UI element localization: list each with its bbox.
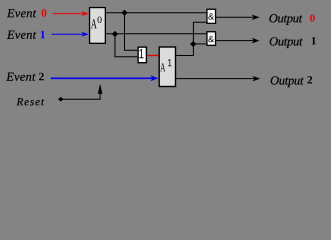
block A1 superscript 1 [168, 59, 171, 66]
gate AND &1 [207, 9, 216, 23]
block A1 letter A [160, 63, 165, 71]
wire Event 2 blue arrow into A1 [51, 75, 159, 81]
label digit 1 blue (Event 1) [41, 31, 45, 38]
wire A1 output arrow to Output 2 [176, 76, 260, 82]
label digit 2 (Output 2) [307, 76, 312, 83]
block A1 [159, 47, 175, 87]
wire J1 down to 1-box top input [125, 13, 138, 51]
gate 1-box [138, 47, 146, 63]
label digit 0 red (Event 0) [42, 9, 47, 17]
node J1 junction diamond [121, 10, 127, 16]
block A0 [90, 8, 106, 44]
block A0 letter A [91, 19, 97, 28]
label Output (row 2) [271, 76, 304, 87]
label Event (row 2) [6, 73, 35, 81]
label digit 1 (Output 1) [312, 37, 316, 44]
gate AND-1 glyph & [208, 13, 214, 19]
wire J2 down to 1-box bottom input [115, 34, 137, 57]
gate AND &2 [207, 32, 216, 46]
label digit 2 (Event 2) [39, 73, 44, 80]
node J2 junction diamond [112, 31, 118, 37]
label Output (row 1) [270, 37, 303, 48]
wire red 1-box output to A1 input [147, 55, 158, 57]
wire Reset to up arrow [61, 84, 103, 100]
wire &2 output arrow to Output 1 [216, 38, 259, 44]
block A0 superscript 0 [97, 16, 101, 23]
label Reset [16, 98, 44, 105]
label Event (row 1) [7, 31, 36, 39]
node Reset diamond [58, 97, 64, 102]
wire Event 1 blue arrow into A0 [52, 32, 89, 37]
wire A1 output up to &1 lower input [176, 22, 206, 55]
wire A0 out top to &1 input [106, 12, 206, 14]
wire J3 to &2 lower input [193, 43, 206, 45]
gate 1-box glyph 1 [139, 49, 143, 58]
wire &1 output arrow to Output 0 [216, 15, 259, 21]
label Event (row 0) [7, 9, 36, 17]
label Output (row 0) [269, 14, 302, 25]
gate AND-2 glyph & [208, 36, 214, 42]
node J3 junction diamond [190, 41, 196, 47]
wire A0 out bottom to &2 input [106, 33, 206, 35]
label digit 0 red (Output 0) [310, 14, 315, 22]
wire Event 0 red arrow into A0 [53, 11, 89, 16]
